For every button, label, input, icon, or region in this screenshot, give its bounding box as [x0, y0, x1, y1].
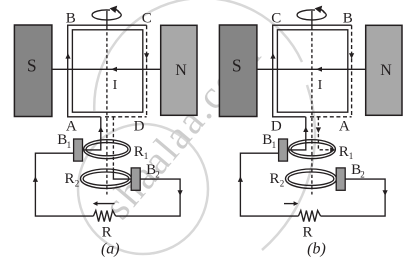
svg-text:A: A	[66, 118, 77, 134]
svg-text:I: I	[113, 78, 118, 93]
svg-text:I: I	[318, 78, 323, 93]
svg-text:S: S	[232, 56, 242, 76]
svg-text:(a): (a)	[101, 241, 120, 258]
svg-text:1: 1	[67, 140, 72, 150]
svg-text:S: S	[27, 56, 37, 76]
svg-text:N: N	[175, 62, 187, 79]
svg-text:R: R	[302, 225, 312, 241]
svg-text:D: D	[134, 118, 145, 134]
svg-text:1: 1	[144, 151, 149, 161]
svg-text:B: B	[343, 11, 353, 27]
svg-text:N: N	[380, 62, 392, 79]
svg-text:1: 1	[349, 151, 354, 161]
svg-text:R: R	[270, 171, 280, 187]
svg-text:C: C	[142, 11, 152, 27]
svg-text:2: 2	[75, 179, 80, 189]
svg-text:1: 1	[272, 140, 277, 150]
svg-text:A: A	[339, 118, 350, 134]
svg-text:2: 2	[280, 179, 285, 189]
svg-text:R: R	[134, 144, 144, 160]
svg-text:C: C	[271, 11, 281, 27]
svg-text:D: D	[271, 118, 282, 134]
svg-text:R: R	[65, 171, 75, 187]
svg-text:(b): (b)	[307, 241, 326, 258]
svg-text:R: R	[339, 144, 349, 160]
svg-text:B: B	[66, 11, 76, 27]
svg-text:2: 2	[360, 170, 365, 180]
svg-text:R: R	[102, 225, 112, 241]
svg-text:2: 2	[155, 170, 160, 180]
